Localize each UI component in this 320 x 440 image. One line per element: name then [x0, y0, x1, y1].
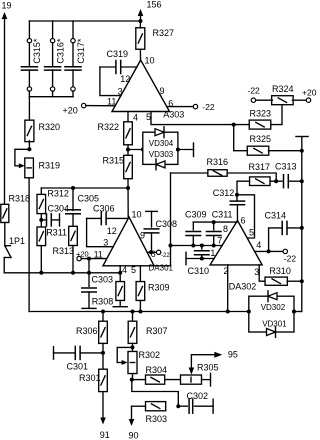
svg-text:12: 12: [120, 74, 130, 84]
svg-text:10: 10: [145, 56, 155, 66]
svg-text:-22: -22: [202, 102, 215, 112]
svg-text:+20: +20: [76, 249, 89, 258]
svg-text:3: 3: [254, 267, 259, 277]
svg-text:R310: R310: [269, 266, 291, 276]
svg-text:R315: R315: [103, 156, 125, 166]
svg-text:3: 3: [103, 238, 108, 248]
svg-text:C310: C310: [188, 266, 210, 276]
svg-text:C306: C306: [93, 204, 115, 214]
svg-text:9: 9: [140, 231, 145, 241]
svg-text:R306: R306: [76, 326, 98, 336]
svg-text:R320: R320: [39, 122, 61, 132]
svg-text:C316*: C316*: [55, 38, 65, 64]
svg-text:90: 90: [129, 430, 139, 440]
svg-text:DA301: DA301: [149, 264, 174, 273]
svg-text:R309: R309: [148, 283, 170, 293]
svg-text:95: 95: [228, 350, 238, 360]
svg-text:91: 91: [100, 430, 110, 440]
svg-text:4: 4: [256, 240, 261, 250]
svg-text:6: 6: [241, 215, 246, 225]
svg-text:12: 12: [107, 226, 117, 236]
svg-text:C304: C304: [48, 204, 70, 214]
svg-text:R303: R303: [146, 414, 168, 424]
svg-text:+20: +20: [63, 106, 78, 116]
svg-text:R323: R323: [250, 109, 272, 119]
svg-text:C313: C313: [275, 162, 297, 172]
svg-text:R319: R319: [39, 161, 61, 171]
svg-text:R305: R305: [197, 363, 219, 373]
svg-text:9: 9: [160, 86, 165, 96]
svg-text:-22: -22: [161, 253, 170, 259]
svg-text:-22: -22: [248, 86, 261, 96]
svg-text:2: 2: [224, 266, 229, 276]
svg-text:5: 5: [131, 265, 136, 275]
svg-text:R312: R312: [47, 188, 69, 198]
svg-text:C311: C311: [212, 210, 233, 220]
svg-text:11: 11: [94, 249, 103, 259]
svg-text:R313: R313: [53, 246, 75, 256]
svg-text:6: 6: [168, 98, 173, 108]
svg-text:R302: R302: [139, 350, 161, 360]
svg-text:R307: R307: [146, 326, 168, 336]
svg-text:C309: C309: [185, 210, 207, 220]
svg-text:R327: R327: [153, 28, 175, 38]
svg-text:5: 5: [249, 228, 254, 238]
svg-text:R301: R301: [79, 373, 101, 383]
svg-text:C308: C308: [156, 219, 178, 229]
svg-text:-22: -22: [284, 254, 297, 264]
svg-text:VD304: VD304: [149, 139, 174, 148]
svg-text:C319: C319: [107, 49, 129, 59]
svg-text:C317*: C317*: [76, 38, 86, 64]
svg-text:VD303: VD303: [149, 150, 174, 159]
svg-text:C314: C314: [265, 211, 287, 221]
svg-text:R318: R318: [9, 194, 31, 204]
svg-text:19: 19: [2, 1, 12, 11]
svg-text:VD301: VD301: [262, 320, 287, 329]
svg-text:+20: +20: [302, 88, 317, 98]
svg-text:1: 1: [210, 248, 215, 258]
svg-text:R322: R322: [98, 122, 120, 132]
svg-text:156: 156: [147, 0, 162, 10]
svg-text:VD302: VD302: [261, 303, 286, 312]
svg-text:10: 10: [132, 209, 142, 219]
svg-text:R304: R304: [146, 365, 168, 375]
svg-text:4: 4: [122, 265, 127, 275]
svg-text:A303: A303: [163, 109, 184, 119]
svg-text:6: 6: [151, 249, 156, 259]
svg-text:C303: C303: [92, 275, 114, 285]
svg-text:R308: R308: [92, 297, 114, 307]
svg-text:8: 8: [223, 224, 228, 234]
svg-text:4: 4: [133, 112, 138, 122]
svg-text:1P1: 1P1: [9, 236, 25, 246]
svg-text:C315*: C315*: [32, 38, 42, 64]
svg-text:R311: R311: [46, 227, 67, 237]
svg-text:R316: R316: [207, 157, 229, 167]
svg-text:3: 3: [118, 87, 123, 97]
svg-text:R325: R325: [250, 134, 272, 144]
svg-text:5: 5: [146, 112, 151, 122]
svg-text:R324: R324: [272, 84, 294, 94]
svg-text:7: 7: [217, 235, 222, 245]
svg-text:R317: R317: [249, 162, 271, 172]
svg-text:DA302: DA302: [229, 282, 257, 292]
svg-text:C302: C302: [187, 391, 209, 401]
svg-text:C312: C312: [213, 188, 235, 198]
svg-text:C305: C305: [78, 194, 100, 204]
svg-text:C301: C301: [67, 362, 89, 372]
svg-text:11: 11: [107, 97, 116, 107]
